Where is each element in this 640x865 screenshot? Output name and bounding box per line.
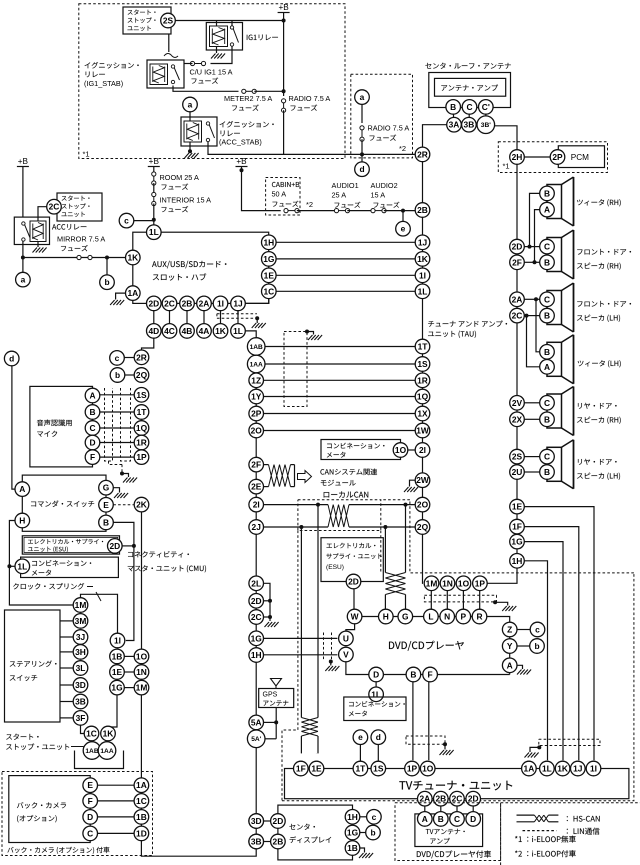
connector 2R (TAU top) [415, 147, 430, 162]
steering connector 1M [73, 598, 88, 613]
steering connector 3D [73, 678, 88, 693]
connector 1AA (CMU) [247, 355, 265, 373]
connector 2Q (TAU left) [415, 520, 430, 535]
display pin 1G [345, 825, 360, 840]
DVD pin L [424, 609, 439, 624]
connector 1C [84, 726, 99, 741]
connector 2P [550, 150, 565, 165]
svg-text:A: A [19, 484, 25, 494]
node d (*2) [361, 154, 363, 162]
svg-text:d: d [359, 164, 364, 174]
svg-text:3A: 3A [449, 120, 460, 130]
svg-text:AUDIO1: AUDIO1 [332, 181, 359, 190]
wire 1L to CMU line (1AB) [245, 331, 256, 338]
connector 2V (TAU right) [510, 396, 525, 411]
node a (left) [22, 258, 24, 273]
svg-text:15 A: 15 A [371, 191, 386, 200]
shield (1I/1J pair) with ground [217, 313, 257, 315]
svg-text:1N: 1N [442, 578, 453, 588]
electrical supply unit (ESU) box left [22, 536, 119, 554]
node c / node b (mic rows) [110, 351, 125, 366]
TV tuner pin 1E [309, 761, 324, 776]
svg-text:1J: 1J [573, 764, 583, 774]
svg-text:C: C [544, 398, 550, 408]
svg-text:3J: 3J [76, 632, 86, 642]
svg-text:1AB: 1AB [85, 748, 98, 755]
svg-text:d: d [9, 354, 14, 364]
shield (mic wires) dashed [105, 388, 113, 461]
svg-text:1X: 1X [417, 409, 428, 419]
svg-text:PCM: PCM [571, 153, 589, 162]
svg-text:1AA: 1AA [100, 748, 113, 755]
CABIN+B 50A fuse dashed box *2 [266, 178, 300, 216]
svg-text:*1: *1 [83, 150, 90, 159]
svg-text:2C: 2C [512, 311, 523, 321]
start-stop unit box (left, 2C) [57, 193, 102, 221]
svg-text:H: H [383, 612, 389, 622]
svg-text:1AA: 1AA [250, 361, 263, 368]
connector 2D (ESU left) [108, 539, 123, 554]
steering connector 3M [73, 614, 88, 629]
mic pin B [85, 405, 100, 420]
connector 3B (CMU) [249, 834, 264, 849]
GPS antenna box [259, 689, 294, 708]
svg-text:3D: 3D [251, 816, 262, 826]
arrow to CAN system modules [298, 471, 312, 483]
svg-text:1T: 1T [418, 342, 429, 352]
svg-text:1R: 1R [417, 375, 428, 385]
wire trunk elbow to DVD 1P [487, 568, 517, 583]
TV tuner pin 1P [405, 761, 420, 776]
TV tuner pin 1S [371, 761, 386, 776]
connector 2C (TAU right) [510, 308, 525, 323]
wires hub 1H/1G/1E/1C to TAU 1J/1K/1I/1L [276, 241, 415, 243]
TV tuner pin 1O [420, 761, 435, 776]
svg-text:3B: 3B [464, 120, 475, 130]
svg-text:c: c [115, 353, 120, 363]
svg-text:Z: Z [507, 625, 512, 635]
connector 1C (hub right) [262, 284, 277, 299]
svg-text:G: G [103, 483, 110, 493]
steering connector 3F [73, 711, 88, 726]
wire 3F to 1C [81, 725, 85, 733]
mic-side connector column 2R 2Q 1S 1T 1Q 1R 1P [134, 350, 149, 365]
svg-text:a: a [21, 275, 26, 285]
svg-text:RADIO 7.5 A: RADIO 7.5 A [289, 94, 331, 103]
svg-text:B: B [544, 257, 550, 267]
connector 1E (hub right) [262, 268, 277, 283]
local CAN dashed boundary [282, 531, 298, 801]
+B feed down to RADIO fuse (*1) [283, 21, 285, 97]
wires mic A,B,C,D,F to 1S,1T,1Q,1R,1P [100, 394, 134, 396]
svg-text:W: W [351, 612, 359, 622]
TV tuner pin 1T [353, 761, 368, 776]
connector 1K (hub left) [126, 250, 141, 265]
svg-text:F: F [428, 670, 433, 680]
wires hub row to CMU row [153, 311, 155, 324]
local CAN twisted pair dashed box [298, 500, 381, 531]
back camera pin E [83, 778, 98, 793]
wire CMU 2J to TAU 2Q [264, 526, 329, 528]
TV tuner pin 1A [522, 761, 537, 776]
connector 1L (meter bottom) [369, 687, 384, 702]
connector 2X (TAU right) [510, 412, 525, 427]
svg-text:B: B [544, 347, 550, 357]
svg-text:2E: 2E [251, 482, 262, 492]
connector 1R (TAU left) [415, 373, 430, 388]
electrical supply unit (ESU) box right [321, 538, 383, 582]
fuse INTERIOR 15A [153, 195, 155, 204]
svg-text:1L: 1L [149, 227, 159, 237]
connector 1G (hub right) [262, 252, 277, 267]
svg-text:a: a [360, 92, 365, 102]
wire 4D to 2R [142, 338, 154, 350]
svg-text:2I: 2I [253, 500, 260, 510]
svg-text:2A: 2A [512, 294, 523, 304]
svg-text:2F: 2F [251, 460, 261, 470]
svg-text:2P: 2P [251, 409, 262, 419]
ground (TAU 2W) [410, 480, 416, 486]
connector 3A [447, 117, 462, 132]
wire hub 1C to 1J [237, 311, 239, 315]
svg-text:1L: 1L [371, 689, 381, 699]
svg-text:ROOM 25 A: ROOM 25 A [160, 173, 199, 182]
front door speaker LH [547, 291, 562, 325]
svg-text:1L: 1L [542, 764, 552, 774]
connector 2S [161, 13, 176, 28]
connector 2D (TAU right) [510, 239, 525, 254]
svg-text:2W: 2W [416, 475, 429, 485]
display pin 1H [345, 810, 360, 825]
svg-text:1K: 1K [127, 253, 138, 263]
connector 2B (display) [271, 834, 286, 849]
svg-text:L: L [428, 612, 433, 622]
shield (CMU right wires) with ground [284, 332, 307, 407]
wire TAU 1H to TV 1L [524, 561, 547, 760]
svg-text:3L: 3L [76, 663, 86, 673]
tweeter RH pins [540, 186, 555, 201]
svg-text:2B: 2B [182, 298, 193, 308]
svg-text:D: D [89, 438, 95, 448]
ACC relay [14, 217, 49, 244]
svg-text:1Z: 1Z [251, 375, 261, 385]
connector 1X (TAU left) [415, 406, 430, 421]
svg-text:a: a [188, 100, 193, 110]
wire GPS to 5A/5A prime [275, 708, 277, 739]
node d (TV 1S) [371, 730, 386, 745]
svg-text:2R: 2R [417, 149, 428, 159]
svg-text:c: c [535, 625, 540, 635]
connector 2S (TAU right) [510, 449, 525, 464]
commander pin A [15, 482, 30, 497]
svg-text:METER2 7.5 A: METER2 7.5 A [224, 94, 272, 103]
svg-text:c: c [124, 216, 129, 226]
back camera option note [7, 847, 13, 853]
ground for CMU 2L/2D/2C group [264, 583, 271, 621]
TV tuner pin 1I [586, 761, 601, 776]
svg-text:D: D [470, 814, 476, 824]
svg-text:4C: 4C [164, 326, 175, 336]
wire CMU 1G to DVD U [264, 637, 338, 639]
wire ACC relay coil to 2C [38, 207, 47, 221]
connector 2D (ESU bottom) [346, 574, 361, 589]
svg-text:1A: 1A [127, 288, 138, 298]
wire tweeter LH B [536, 299, 540, 352]
svg-text:50 A: 50 A [272, 190, 287, 199]
wire 1G to 1K (start-stop) [108, 695, 117, 727]
antenna pin C [462, 100, 477, 115]
svg-text:D: D [373, 670, 379, 680]
ignition relay (IG1_STAB) [85, 62, 91, 68]
connector 2A (TAU right) [510, 292, 525, 307]
commander pin G [99, 480, 114, 495]
svg-text:1I: 1I [114, 636, 121, 646]
svg-text:1G: 1G [263, 254, 274, 264]
svg-text:H: H [19, 516, 25, 526]
connector 1J (TAU left) [415, 235, 430, 250]
svg-text:N: N [444, 612, 450, 622]
connector 2L (CMU) [249, 576, 264, 591]
mic pin D [85, 435, 100, 450]
roof antenna unit box [429, 73, 511, 108]
svg-text:+B: +B [149, 157, 160, 166]
svg-text:(ESU): (ESU) [326, 564, 344, 571]
PCM box [558, 146, 604, 168]
svg-text:1N: 1N [136, 667, 147, 677]
svg-text:*2: *2 [306, 200, 313, 209]
back camera pin F [83, 794, 98, 809]
svg-text:B: B [544, 467, 550, 477]
svg-text:1L: 1L [233, 326, 243, 336]
svg-text:2O: 2O [417, 500, 429, 510]
svg-text:INTERIOR 15 A: INTERIOR 15 A [160, 196, 212, 205]
svg-text:b: b [534, 641, 539, 651]
svg-text:1B: 1B [136, 812, 147, 822]
ground (mic shield) [122, 474, 129, 478]
svg-text:1O: 1O [458, 578, 470, 588]
connector 1T (TAU left) [415, 339, 430, 354]
connector 2B (TAU) [415, 203, 430, 218]
junction dots on local CAN [316, 503, 320, 507]
ground (DVD A) [517, 665, 523, 669]
svg-text:1R: 1R [136, 438, 147, 448]
DVD pin R [472, 609, 487, 624]
svg-text:2H: 2H [512, 152, 523, 162]
ground (commander G) [113, 488, 119, 493]
HS-CAN twisted pair to CAN module [264, 464, 269, 466]
wire to TV tuner 1F [300, 527, 302, 718]
connector 1I (TAU left) [415, 268, 430, 283]
svg-text:C: C [544, 294, 550, 304]
svg-text:1S: 1S [136, 390, 147, 400]
wire CMU 1H to DVD V [264, 654, 338, 656]
svg-text:1M: 1M [136, 683, 148, 693]
node a (ACC relay feed) [183, 97, 198, 112]
node a (*2) [355, 90, 370, 105]
center display box [278, 805, 353, 860]
shield (B/F wires) with ground [406, 736, 445, 744]
wire ACC relay to MIRROR fuse and 1K [22, 241, 24, 257]
TAU right trunk [516, 164, 518, 553]
svg-text:2D: 2D [348, 577, 359, 587]
svg-text:B: B [103, 517, 109, 527]
svg-text:A: A [89, 391, 95, 401]
svg-text:2F: 2F [512, 257, 522, 267]
connector 2D (CMU) [249, 594, 264, 609]
svg-text:3B: 3B [75, 697, 86, 707]
svg-text:A: A [544, 362, 550, 372]
TV tuner unit box [285, 769, 629, 799]
DVD bottom edge with D B F pins [346, 662, 369, 675]
svg-text:2J: 2J [252, 522, 262, 532]
connector 1A (hub left) [126, 286, 141, 301]
wires 2D/2F to front RH [524, 246, 539, 248]
connector 2W (TAU left) [415, 473, 430, 488]
svg-text:C: C [87, 828, 93, 838]
wire DVD B to TV 1P [412, 682, 414, 760]
svg-text:1J: 1J [233, 298, 243, 308]
svg-text:1C: 1C [136, 796, 147, 806]
connector 2K [134, 497, 149, 512]
svg-text:1P: 1P [407, 764, 418, 774]
svg-text:1E: 1E [311, 764, 322, 774]
front door speaker RH [547, 238, 562, 272]
DVD pin P [456, 609, 471, 624]
svg-text:+B: +B [236, 157, 247, 166]
connector 1G (TAU right) [510, 534, 525, 549]
combination meter box (middle) [321, 440, 401, 460]
connector 1Z (CMU) [249, 373, 264, 388]
svg-text:P: P [461, 612, 467, 622]
svg-text:1L: 1L [17, 561, 27, 571]
twisted pair to DVD H/G [385, 573, 405, 595]
svg-text:2S: 2S [163, 16, 174, 26]
dashed option box *1 (i-ELOOP無車) [79, 4, 345, 159]
connector 2I (CMU) [249, 497, 264, 512]
connector 1H (TAU right) [510, 554, 525, 569]
combination meter box left [21, 557, 119, 577]
DVD left pins U V [339, 631, 354, 646]
connector 1E (TAU right) [510, 499, 525, 514]
back camera pin D [83, 810, 98, 825]
commander pin H [15, 513, 30, 528]
connector 1L (hub top) [147, 225, 162, 240]
svg-text:3B': 3B' [481, 122, 491, 129]
svg-text:1J: 1J [418, 237, 428, 247]
TV tuner pin 1J [571, 761, 586, 776]
commander pin E [99, 498, 114, 513]
legend HS-CAN symbol [517, 814, 535, 816]
svg-text:C: C [466, 102, 472, 112]
svg-text:1G: 1G [511, 537, 522, 547]
svg-text:+B: +B [278, 3, 289, 12]
DVD/CD player top pin row [355, 616, 480, 618]
svg-text:c: c [372, 812, 377, 822]
svg-text:5A': 5A' [251, 736, 261, 743]
dashed option box *2 (i-ELOOP付車) [351, 74, 413, 158]
svg-text:C/U IG1 15 A: C/U IG1 15 A [190, 68, 233, 77]
svg-text:2I: 2I [419, 445, 426, 455]
svg-text:2U: 2U [512, 467, 523, 477]
svg-text:1AB: 1AB [250, 344, 263, 351]
connector 3D (CMU) [249, 814, 264, 829]
connector 1S (TAU left) [415, 357, 430, 372]
start-stop unit label (bottom) [6, 734, 12, 739]
mic pin A [85, 388, 100, 403]
connector 1H (hub right) [262, 235, 277, 250]
svg-text:1H: 1H [251, 650, 262, 660]
tweeter LH pins [540, 345, 555, 360]
node c (DVD Z) [530, 622, 545, 637]
connector 5A' (CMU) [247, 730, 265, 748]
svg-text:2R: 2R [136, 352, 147, 362]
wires 2A/2C to front LH [524, 298, 539, 300]
svg-text:1A: 1A [524, 764, 535, 774]
TV tuner pin 1K [555, 761, 570, 776]
svg-text:C: C [544, 242, 550, 252]
fuse CABIN+B 50A [286, 210, 297, 212]
legend *1 note [515, 836, 518, 838]
connector 5A (CMU) [249, 715, 264, 730]
wire 1M elbow to 1I [81, 594, 118, 633]
wire CMU 2I to TAU 2O [264, 504, 329, 506]
shield (1L-1I wires) with ground at 1A [539, 739, 600, 745]
svg-text:1G: 1G [347, 828, 358, 838]
legend *2 note [515, 850, 518, 852]
DVD pin W [347, 609, 362, 624]
camera connector column 1A 1C 1B 1D [134, 778, 149, 793]
wire dot to DVD H [384, 527, 386, 573]
svg-text:1O: 1O [395, 445, 407, 455]
svg-text:2D: 2D [251, 596, 262, 606]
start-stop unit box (top) [123, 7, 171, 34]
twisted pair to 1F/1E [301, 718, 318, 737]
DVD pin H [379, 609, 394, 624]
connector 2H [510, 150, 525, 165]
svg-text:1T: 1T [137, 407, 148, 417]
wire dot to DVD G [405, 505, 407, 573]
svg-text:1E: 1E [264, 270, 275, 280]
svg-text:1L: 1L [418, 286, 428, 296]
svg-text:1A: 1A [136, 780, 147, 790]
svg-text:+B: +B [18, 157, 29, 166]
ground (IG1 relay coil) [216, 47, 218, 54]
wire ACC_STAB output to 2R [208, 142, 415, 155]
fuse C/U IG1 15A [193, 63, 204, 65]
svg-text:D: D [87, 812, 93, 822]
connector 2J (CMU) [249, 520, 264, 535]
svg-text:1Q: 1Q [136, 423, 148, 433]
svg-text:4B: 4B [182, 326, 193, 336]
ground (ACC relay coil) [37, 242, 39, 248]
connector 2F (TAU right) [510, 255, 525, 270]
svg-text:1M: 1M [75, 600, 87, 610]
DVD/CD player option dashed box [395, 803, 501, 861]
svg-text:1Y: 1Y [251, 392, 262, 402]
svg-text:1K: 1K [417, 254, 428, 264]
svg-text:B: B [450, 102, 456, 112]
svg-text:1K: 1K [215, 326, 226, 336]
hub bottom connector row 2D 2C 2B 2A 1I 1J [147, 296, 162, 311]
svg-text:1C: 1C [263, 286, 274, 296]
DVD pin N [440, 609, 455, 624]
tweeter RH speaker [547, 185, 562, 219]
connector 1F (TAU right) [510, 519, 525, 534]
svg-text:A: A [544, 205, 550, 215]
svg-text:e: e [401, 224, 406, 234]
svg-text:2D: 2D [512, 242, 523, 252]
svg-text:1B: 1B [347, 843, 358, 853]
